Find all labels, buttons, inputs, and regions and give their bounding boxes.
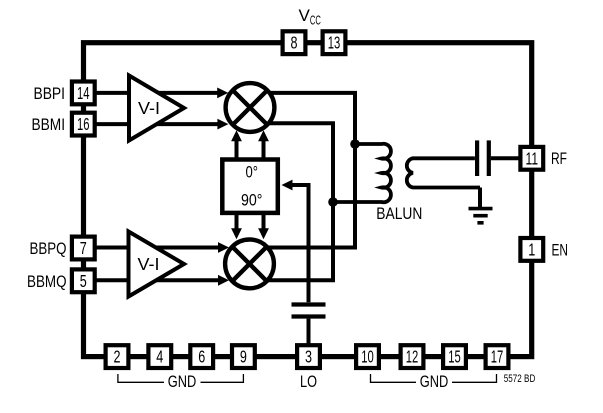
- pin 11 box (RF): [520, 147, 543, 170]
- wire: BBPI pin 14 to I-mixer RF-in upper: [96, 88, 228, 99]
- svg-text:GND: GND: [168, 372, 197, 391]
- pin 8 box (VCC1): [283, 31, 306, 54]
- pin 14 box (BBPI): [72, 82, 95, 105]
- balun primary winding L1: [333, 144, 391, 203]
- svg-text:BBPQ: BBPQ: [30, 239, 67, 258]
- op-amp/V-I converter U2 (Q channel): [129, 232, 185, 297]
- svg-text:11: 11: [526, 148, 539, 168]
- wire: BBPQ pin 7 to Q-mixer in upper: [96, 242, 229, 253]
- svg-text:RF: RF: [551, 149, 567, 168]
- phase shifter block (0/90 degrees): [222, 160, 277, 213]
- wire: phase shifter 90-deg to Q-mixer LO port (left): [231, 213, 242, 239]
- pin 10 box (GND10): [356, 345, 379, 368]
- wire: BBMI pin 16 to I-mixer in lower: [96, 119, 228, 130]
- pin 17 box (GND17): [486, 345, 509, 368]
- capacitor C2 (RF output coupling cap): [477, 140, 489, 176]
- svg-text:LO: LO: [300, 372, 317, 391]
- pin 5 box (BBMQ): [72, 269, 95, 292]
- wire: I-mixer upper output right, down, to Q-mixer upper output (summing bus B): [250, 93, 356, 248]
- svg-text:6: 6: [198, 347, 205, 367]
- svg-text:BBMQ: BBMQ: [27, 272, 67, 291]
- mixer M1 (I channel, circle with X): [226, 83, 275, 132]
- svg-text:16: 16: [77, 114, 90, 134]
- wire: C2 to RF pin 11: [491, 156, 522, 160]
- svg-text:BBPI: BBPI: [34, 84, 66, 103]
- pin 2 box (GND2): [106, 345, 129, 368]
- wire: phase shifter 0-deg to I-mixer LO port (left): [231, 130, 242, 159]
- svg-text:13: 13: [328, 33, 341, 53]
- svg-text:7: 7: [80, 238, 87, 258]
- pin 3 box (LO): [297, 345, 320, 368]
- wire: LO vertical upper segment: [307, 183, 311, 302]
- pin 9 box (GND9): [232, 345, 255, 368]
- node: junction dot B (bus B to balun primary top): [350, 139, 360, 149]
- svg-text:5572 BD: 5572 BD: [504, 373, 536, 385]
- svg-text:GND: GND: [420, 372, 449, 391]
- svg-text:4: 4: [156, 347, 163, 367]
- node: junction dot A (bus A to balun primary bottom): [328, 197, 338, 207]
- wire: LO vertical lower segment to pin 3: [307, 319, 311, 345]
- pin 13 box (VCC2): [323, 31, 346, 54]
- GND bracket right (pins 10-17): [371, 374, 497, 382]
- svg-text:5: 5: [80, 271, 87, 291]
- balun secondary winding L2: [407, 158, 480, 187]
- svg-text:VCC: VCC: [299, 6, 321, 28]
- svg-text:9: 9: [240, 347, 247, 367]
- chip boundary wire (outer rectangle): [84, 43, 532, 357]
- svg-text:0°: 0°: [245, 163, 258, 182]
- svg-text:3: 3: [305, 347, 312, 367]
- wire: phase shifter to Q-mixer LO port (right): [258, 213, 269, 239]
- mixer M2 (Q channel, circle with X): [225, 240, 274, 289]
- GND bracket left (pins 2-9): [118, 374, 243, 382]
- capacitor C1 (LO series cap): [292, 305, 326, 317]
- pin 6 box (GND6): [190, 345, 213, 368]
- svg-text:15: 15: [448, 347, 461, 367]
- svg-text:14: 14: [77, 83, 90, 103]
- svg-text:8: 8: [291, 33, 298, 53]
- op-amp/V-I converter U1 (I channel): [129, 76, 184, 141]
- ground symbol (balun secondary): [469, 209, 493, 223]
- pin 7 box (BBPQ): [72, 237, 95, 260]
- svg-text:10: 10: [361, 347, 374, 367]
- pin 4 box (GND4): [148, 345, 171, 368]
- svg-text:V-I: V-I: [138, 254, 160, 274]
- svg-text:V-I: V-I: [138, 98, 160, 118]
- wire: I-mixer lower output right, down, to Q-mixer lower output (summing bus A): [250, 123, 334, 280]
- svg-text:17: 17: [491, 347, 504, 367]
- svg-text:BBMI: BBMI: [32, 115, 66, 134]
- svg-text:12: 12: [406, 347, 419, 367]
- wire: balun secondary bottom to ground: [478, 188, 482, 208]
- pin 16 box (BBMI): [72, 113, 95, 136]
- svg-text:BALUN: BALUN: [376, 204, 422, 223]
- wire: BBMQ pin 5 to Q-mixer in lower: [96, 275, 229, 286]
- svg-text:2: 2: [114, 347, 121, 367]
- svg-text:1: 1: [528, 239, 535, 259]
- svg-text:EN: EN: [552, 240, 569, 259]
- pin 15 box (GND15): [443, 345, 466, 368]
- pin 12 box (GND12): [401, 345, 424, 368]
- pin 1 box (EN): [520, 238, 543, 261]
- wire: phase shifter to I-mixer LO port (right): [258, 130, 269, 159]
- wire: LO arrow into phase shifter: [282, 180, 309, 191]
- svg-text:90°: 90°: [241, 191, 263, 210]
